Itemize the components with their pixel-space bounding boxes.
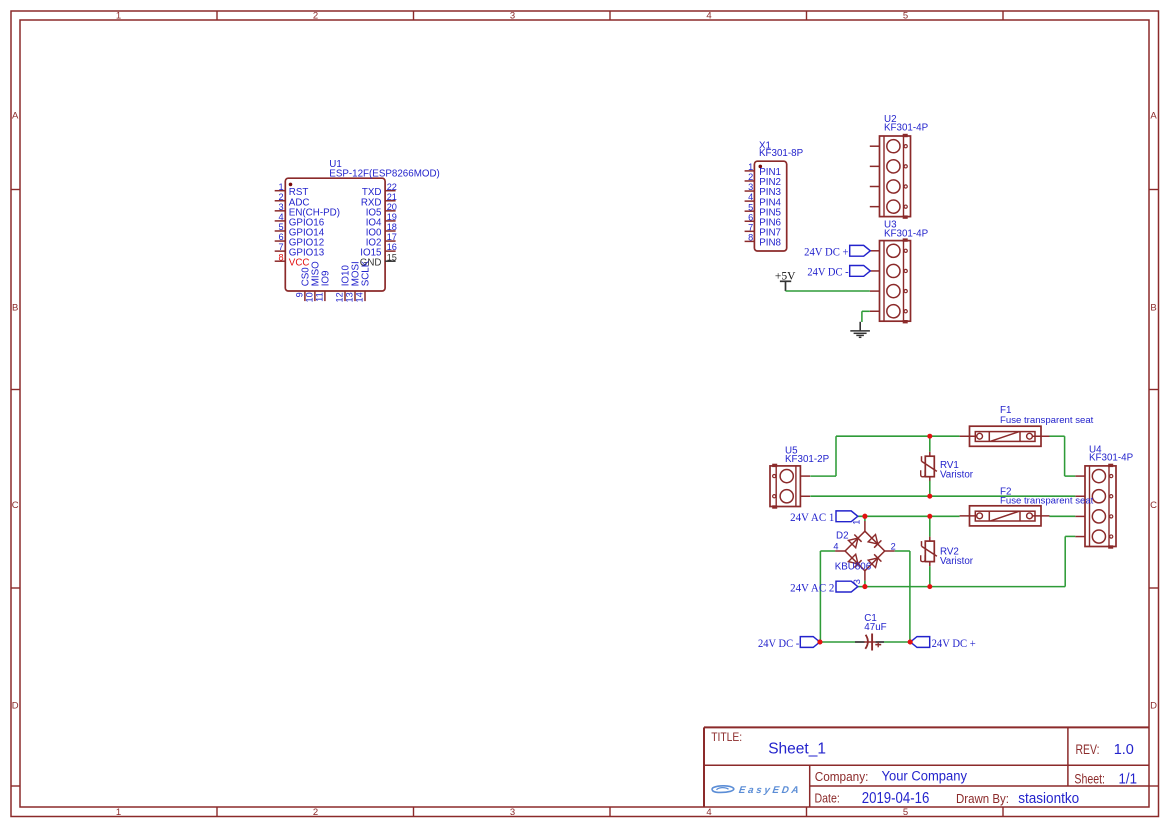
svg-text:B: B bbox=[12, 303, 18, 314]
svg-text:7: 7 bbox=[748, 222, 753, 232]
svg-text:4: 4 bbox=[706, 11, 711, 22]
svg-text:4: 4 bbox=[748, 192, 753, 202]
svg-text:4: 4 bbox=[278, 212, 283, 222]
svg-text:5: 5 bbox=[903, 807, 908, 818]
svg-text:6: 6 bbox=[748, 212, 753, 222]
svg-text:1: 1 bbox=[116, 11, 121, 22]
svg-text:Company:: Company: bbox=[815, 770, 869, 784]
svg-text:1/1: 1/1 bbox=[1119, 770, 1138, 787]
svg-text:2: 2 bbox=[748, 172, 753, 182]
svg-text:+5V: +5V bbox=[775, 269, 796, 282]
svg-text:16: 16 bbox=[387, 242, 397, 252]
svg-text:6: 6 bbox=[278, 232, 283, 242]
svg-text:Drawn By:: Drawn By: bbox=[956, 792, 1009, 806]
svg-text:13: 13 bbox=[344, 292, 354, 302]
svg-text:VCC: VCC bbox=[289, 258, 310, 269]
svg-text:18: 18 bbox=[387, 222, 397, 232]
svg-text:SCLK: SCLK bbox=[361, 260, 372, 286]
svg-text:17: 17 bbox=[387, 232, 397, 242]
svg-text:2019-04-16: 2019-04-16 bbox=[862, 790, 930, 807]
svg-text:KF301-4P: KF301-4P bbox=[884, 229, 929, 240]
svg-text:KF301-2P: KF301-2P bbox=[785, 454, 830, 465]
svg-text:Fuse transparent seat: Fuse transparent seat bbox=[1000, 415, 1094, 426]
svg-text:stasiontko: stasiontko bbox=[1018, 790, 1079, 807]
svg-text:D2: D2 bbox=[836, 531, 849, 542]
svg-text:2: 2 bbox=[891, 541, 896, 551]
svg-text:5: 5 bbox=[748, 202, 753, 212]
svg-text:D: D bbox=[1150, 701, 1157, 712]
svg-text:22: 22 bbox=[387, 182, 397, 192]
svg-text:9: 9 bbox=[294, 292, 304, 297]
svg-text:D: D bbox=[12, 701, 19, 712]
svg-text:5: 5 bbox=[903, 11, 908, 22]
svg-text:IO9: IO9 bbox=[320, 271, 331, 287]
svg-text:ESP-12F(ESP8266MOD): ESP-12F(ESP8266MOD) bbox=[329, 169, 440, 180]
svg-text:24V DC +: 24V DC + bbox=[804, 246, 849, 259]
svg-text:12: 12 bbox=[334, 292, 344, 302]
svg-text:19: 19 bbox=[387, 212, 397, 222]
svg-text:Your Company: Your Company bbox=[882, 769, 968, 784]
svg-text:KBU806: KBU806 bbox=[835, 561, 872, 572]
svg-text:2: 2 bbox=[313, 807, 318, 818]
svg-text:5: 5 bbox=[278, 222, 283, 232]
svg-text:14: 14 bbox=[354, 292, 364, 302]
svg-text:24V AC 1: 24V AC 1 bbox=[790, 511, 834, 524]
svg-text:2: 2 bbox=[313, 11, 318, 22]
svg-text:Sheet_1: Sheet_1 bbox=[768, 741, 826, 758]
svg-text:B: B bbox=[1150, 303, 1156, 314]
svg-text:11: 11 bbox=[314, 292, 324, 302]
svg-text:24V DC -: 24V DC - bbox=[758, 637, 799, 650]
svg-text:C: C bbox=[1150, 500, 1157, 511]
svg-text:Varistor: Varistor bbox=[940, 556, 974, 567]
svg-text:10: 10 bbox=[304, 292, 314, 302]
svg-text:EasyEDA: EasyEDA bbox=[738, 785, 802, 796]
svg-text:15: 15 bbox=[387, 252, 397, 262]
svg-text:8: 8 bbox=[278, 252, 283, 262]
svg-text:Fuse transparent seat: Fuse transparent seat bbox=[1000, 496, 1094, 507]
svg-text:21: 21 bbox=[387, 192, 397, 202]
svg-text:24V AC 2: 24V AC 2 bbox=[790, 581, 834, 594]
svg-text:PIN8: PIN8 bbox=[759, 238, 781, 249]
svg-text:8: 8 bbox=[748, 232, 753, 242]
svg-text:Sheet:: Sheet: bbox=[1074, 771, 1105, 786]
svg-text:4: 4 bbox=[833, 541, 838, 551]
svg-text:TITLE:: TITLE: bbox=[711, 730, 742, 744]
svg-text:1: 1 bbox=[278, 182, 283, 192]
svg-text:3: 3 bbox=[510, 807, 515, 818]
svg-text:REV:: REV: bbox=[1076, 742, 1100, 757]
svg-text:1.0: 1.0 bbox=[1114, 742, 1134, 758]
svg-text:7: 7 bbox=[278, 242, 283, 252]
svg-text:3: 3 bbox=[278, 202, 283, 212]
svg-text:A: A bbox=[12, 111, 19, 122]
svg-text:2: 2 bbox=[278, 192, 283, 202]
svg-text:3: 3 bbox=[510, 11, 515, 22]
svg-text:1: 1 bbox=[116, 807, 121, 818]
svg-text:3: 3 bbox=[748, 182, 753, 192]
svg-text:Date:: Date: bbox=[815, 791, 840, 805]
svg-text:24V DC -: 24V DC - bbox=[807, 266, 848, 279]
svg-text:KF301-4P: KF301-4P bbox=[884, 123, 929, 134]
svg-text:KF301-4P: KF301-4P bbox=[1089, 453, 1134, 464]
svg-text:24V DC +: 24V DC + bbox=[932, 637, 976, 650]
svg-text:4: 4 bbox=[706, 807, 711, 818]
svg-text:47uF: 47uF bbox=[864, 622, 886, 633]
svg-text:1: 1 bbox=[748, 162, 753, 172]
svg-text:KF301-8P: KF301-8P bbox=[759, 148, 804, 159]
svg-text:20: 20 bbox=[387, 202, 397, 212]
svg-text:C: C bbox=[12, 500, 19, 511]
svg-text:Varistor: Varistor bbox=[940, 470, 974, 481]
svg-text:A: A bbox=[1150, 111, 1157, 122]
